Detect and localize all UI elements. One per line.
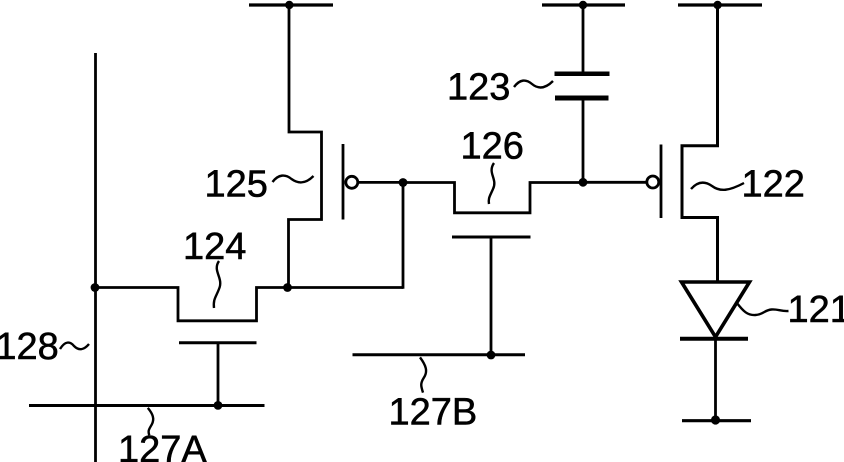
svg-text:121: 121 xyxy=(788,289,844,331)
svg-text:127B: 127B xyxy=(389,392,478,434)
svg-text:123: 123 xyxy=(447,67,510,109)
svg-text:126: 126 xyxy=(461,126,524,168)
svg-text:128: 128 xyxy=(0,326,59,368)
svg-text:127A: 127A xyxy=(118,429,207,462)
svg-text:122: 122 xyxy=(742,163,805,205)
svg-text:124: 124 xyxy=(183,226,246,268)
svg-text:125: 125 xyxy=(205,164,268,206)
